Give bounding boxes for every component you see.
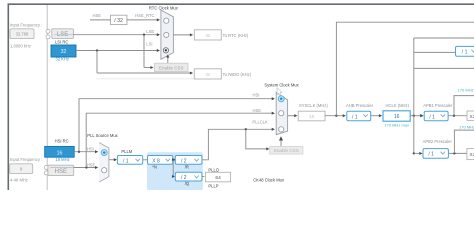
svg-text:16 MHz: 16 MHz xyxy=(55,157,69,162)
svg-text:170 MHz max: 170 MHz max xyxy=(459,124,474,129)
svg-text:/ 1: / 1 xyxy=(428,152,434,158)
svg-text:CK48 Clock Mux: CK48 Clock Mux xyxy=(253,177,285,182)
input frequency label (LSE) xyxy=(10,22,42,27)
wire APB2 timers branch up xyxy=(454,130,474,153)
mouse cursor xyxy=(277,88,282,96)
LSI 32 KHz label xyxy=(55,57,69,62)
wire HSI to PLL mux xyxy=(74,150,98,153)
svg-text:RTC Clock Mux: RTC Clock Mux xyxy=(149,6,179,11)
APB2 Prescaler label xyxy=(423,139,453,144)
PLLQ output box 64 xyxy=(206,172,231,182)
HSE label (system mux) xyxy=(253,108,262,113)
System Clock Mux label xyxy=(264,83,299,88)
wire PLLQ to 64 box xyxy=(202,176,205,178)
wire LSE junction down to Enable CSS xyxy=(144,35,154,69)
LSE label (RTC mux) xyxy=(146,29,154,34)
svg-text:32: 32 xyxy=(61,49,67,55)
HSI RC box 16 xyxy=(45,146,74,157)
svg-text:64: 64 xyxy=(215,175,221,181)
170 MHz max label (APB2) xyxy=(459,124,474,129)
wire APB1 timers branch up xyxy=(454,96,474,116)
svg-text:AHB Prescaler: AHB Prescaler xyxy=(346,103,374,108)
CK48 Clock Mux label xyxy=(253,177,285,182)
PLLQ label xyxy=(208,167,219,172)
svg-text:System Clock Mux: System Clock Mux xyxy=(264,83,299,88)
PLL Source Mux label xyxy=(87,133,118,138)
svg-text:X2: X2 xyxy=(470,114,474,120)
PLLR dropdown /2 xyxy=(175,156,202,165)
HSI label (system mux) xyxy=(253,93,260,98)
system clock mux xyxy=(276,92,287,134)
svg-text:PLLCLK: PLLCLK xyxy=(252,119,268,124)
svg-text:HSE: HSE xyxy=(93,13,102,18)
RTC Clock Mux label xyxy=(149,6,179,11)
svg-text:HSE: HSE xyxy=(253,108,262,113)
faint inactive wire xyxy=(96,78,197,80)
wire HSE up to system mux xyxy=(86,112,275,168)
PLLCLK label xyxy=(252,119,268,124)
HSE_RTC label xyxy=(135,13,154,18)
svg-text:PLLM: PLLM xyxy=(121,149,132,154)
svg-text:Input Frequency :: Input Frequency : xyxy=(10,157,42,162)
HCLK (MHz) label xyxy=(386,103,410,108)
PLLM label xyxy=(121,149,132,154)
input frequency box 8 xyxy=(10,164,33,174)
HCLK distribution bus xyxy=(413,38,415,153)
wire RTC mux to To RTC box xyxy=(173,33,193,36)
170 MHz max label (HCLK) xyxy=(384,123,409,128)
To IWDG (KHz) label xyxy=(223,72,252,77)
svg-text:To IWDG (KHz): To IWDG (KHz) xyxy=(223,72,252,77)
svg-text:Input Frequency :: Input Frequency : xyxy=(10,22,42,27)
svg-text:/ 1: / 1 xyxy=(352,114,358,120)
svg-text:170 MHz max: 170 MHz max xyxy=(458,88,474,93)
HCLK box 16 xyxy=(383,111,410,121)
APB1 Prescaler label xyxy=(423,103,453,108)
/R label xyxy=(185,164,189,169)
FCLK branch wire xyxy=(414,67,474,69)
svg-text:HSI: HSI xyxy=(87,147,94,152)
wire PLLCLK junction down to Enable CSS xyxy=(245,128,270,150)
panel frame xyxy=(8,4,474,190)
SYSCLK box 16 xyxy=(298,111,325,121)
SYSCLK (MHz) label xyxy=(299,103,328,108)
RTC CSS up arrow xyxy=(166,54,169,63)
HSE box xyxy=(48,165,74,175)
divider /32 box xyxy=(111,15,127,24)
wire HSE to PLL mux xyxy=(74,166,99,169)
170 MHz max label (APB1) xyxy=(458,88,474,93)
APB1 prescaler dropdown /1 xyxy=(420,111,448,121)
svg-text:16: 16 xyxy=(394,114,400,120)
svg-text:16: 16 xyxy=(309,114,315,120)
wire HSI up to system mux xyxy=(79,97,275,152)
PLL highlight region xyxy=(147,152,203,190)
PLLM dropdown /1 xyxy=(117,156,142,165)
svg-text:*N: *N xyxy=(152,164,157,169)
svg-text:LSI RC: LSI RC xyxy=(55,40,68,45)
/Q label xyxy=(185,181,190,186)
system mux CSS up arrow xyxy=(279,136,283,146)
AHB Prescaler label xyxy=(346,103,374,108)
bus top branch wire xyxy=(414,37,474,39)
svg-text:LSE: LSE xyxy=(57,32,68,38)
svg-text:LSI: LSI xyxy=(146,41,152,46)
RTC clock mux xyxy=(161,10,174,59)
Enable CSS button (system) xyxy=(270,147,303,155)
svg-text:/R: /R xyxy=(185,164,189,169)
PLLQ dropdown /2 xyxy=(175,172,202,181)
wire LSI to RTC mux xyxy=(76,49,160,52)
wire SYSCLK branch up to top row xyxy=(336,22,474,116)
svg-text:1.0000 kHz: 1.0000 kHz xyxy=(10,43,31,48)
svg-text:32.768: 32.768 xyxy=(16,32,29,37)
PLLP label xyxy=(208,183,218,188)
svg-text:Enable CSS: Enable CSS xyxy=(159,66,184,71)
svg-text:To RTC (KHz): To RTC (KHz) xyxy=(223,33,249,38)
APB2 prescaler dropdown /1 xyxy=(413,149,449,159)
wire PLLN junction down to PLLQ xyxy=(172,160,175,178)
HSI label (PLL mux) xyxy=(87,147,94,152)
LSI RC box 32 xyxy=(51,45,76,57)
svg-text:32: 32 xyxy=(205,72,210,77)
wire APB1 to X2 box xyxy=(448,115,467,117)
svg-text:/ 1: / 1 xyxy=(462,50,468,56)
input frequency box 32.768 xyxy=(10,29,34,39)
svg-text:SYSCLK (MHz): SYSCLK (MHz) xyxy=(299,103,328,108)
wire HSE to /32 xyxy=(90,19,111,21)
wire SYSCLK to AHB prescaler xyxy=(325,114,346,117)
svg-text:/Q: /Q xyxy=(185,181,190,186)
svg-text:PLLP: PLLP xyxy=(208,183,218,188)
svg-text:HSE_RTC: HSE_RTC xyxy=(135,13,154,18)
svg-text:HSE: HSE xyxy=(55,169,67,175)
svg-text:HSI: HSI xyxy=(253,93,260,98)
svg-text:PLL Source Mux: PLL Source Mux xyxy=(87,133,118,138)
LSE box xyxy=(52,29,74,39)
wire HCLK to bus xyxy=(410,114,423,117)
wire PLL mux to PLLM xyxy=(109,158,117,161)
svg-text:HSE: HSE xyxy=(87,163,96,168)
wire APB2 to X2 box xyxy=(448,152,467,154)
svg-text:HSI RC: HSI RC xyxy=(55,139,69,144)
svg-text:Enable CSS: Enable CSS xyxy=(274,148,299,153)
LSE connector circles xyxy=(46,29,50,39)
wire system mux to SYSCLK box xyxy=(288,114,298,117)
wire LSI junction down to IWDG xyxy=(97,51,193,75)
svg-text:APB2 Prescaler: APB2 Prescaler xyxy=(423,139,453,144)
svg-text:16: 16 xyxy=(57,150,63,156)
svg-text:32 KHz: 32 KHz xyxy=(55,57,69,62)
APB1 X2 box xyxy=(467,111,474,120)
svg-text:170 MHz max: 170 MHz max xyxy=(384,123,409,128)
wire across HSE box xyxy=(50,167,74,169)
LSI RC label xyxy=(55,40,68,45)
svg-text:/ 1: / 1 xyxy=(123,158,129,164)
input frequency label (HSE) xyxy=(10,157,42,162)
HSE label (RTC path) xyxy=(93,13,102,18)
input column separator line xyxy=(46,5,48,190)
To IWDG output box xyxy=(194,69,221,79)
svg-text:/ 32: / 32 xyxy=(114,18,123,24)
wire LSE to RTC mux xyxy=(73,33,160,36)
wire PLLR output to system mux (PLLCLK) xyxy=(202,128,275,160)
wire /32 to RTC mux xyxy=(127,18,160,21)
svg-text:PLLQ: PLLQ xyxy=(208,167,219,172)
PLLN dropdown X 8 xyxy=(143,156,173,165)
svg-text:LSE: LSE xyxy=(146,29,154,34)
HSE connector circles xyxy=(44,165,48,175)
APB2 X2 box xyxy=(467,149,474,160)
HSI 16 MHz label xyxy=(55,157,69,162)
LSI label (RTC mux) xyxy=(146,41,152,46)
svg-text:4-48 MHz: 4-48 MHz xyxy=(10,177,28,182)
wire AHB prescaler to HCLK xyxy=(371,114,382,117)
*N label xyxy=(152,164,157,169)
svg-text:HCLK (MHz): HCLK (MHz) xyxy=(386,103,410,108)
HSE label (PLL mux) xyxy=(87,163,96,168)
svg-text:32: 32 xyxy=(205,33,210,38)
Enable CSS button (RTC) xyxy=(155,63,189,71)
svg-text:APB1 Prescaler: APB1 Prescaler xyxy=(423,103,453,108)
wire across LSE box xyxy=(54,34,73,36)
wire PLLN to PLLR xyxy=(172,158,175,161)
cortex timer divider /1 xyxy=(456,46,474,56)
cortex timer branch wire xyxy=(414,51,456,53)
AHB prescaler dropdown /1 xyxy=(347,111,371,121)
svg-text:/ 1: / 1 xyxy=(429,114,435,120)
svg-text:X2: X2 xyxy=(469,152,474,158)
input range label 4-48 MHz xyxy=(10,177,28,182)
PLL source mux xyxy=(99,143,109,182)
HSI RC label xyxy=(55,139,69,144)
input range label 1.0000 kHz xyxy=(10,43,31,48)
To RTC (KHz) label xyxy=(223,33,249,38)
To RTC output box xyxy=(194,30,221,40)
